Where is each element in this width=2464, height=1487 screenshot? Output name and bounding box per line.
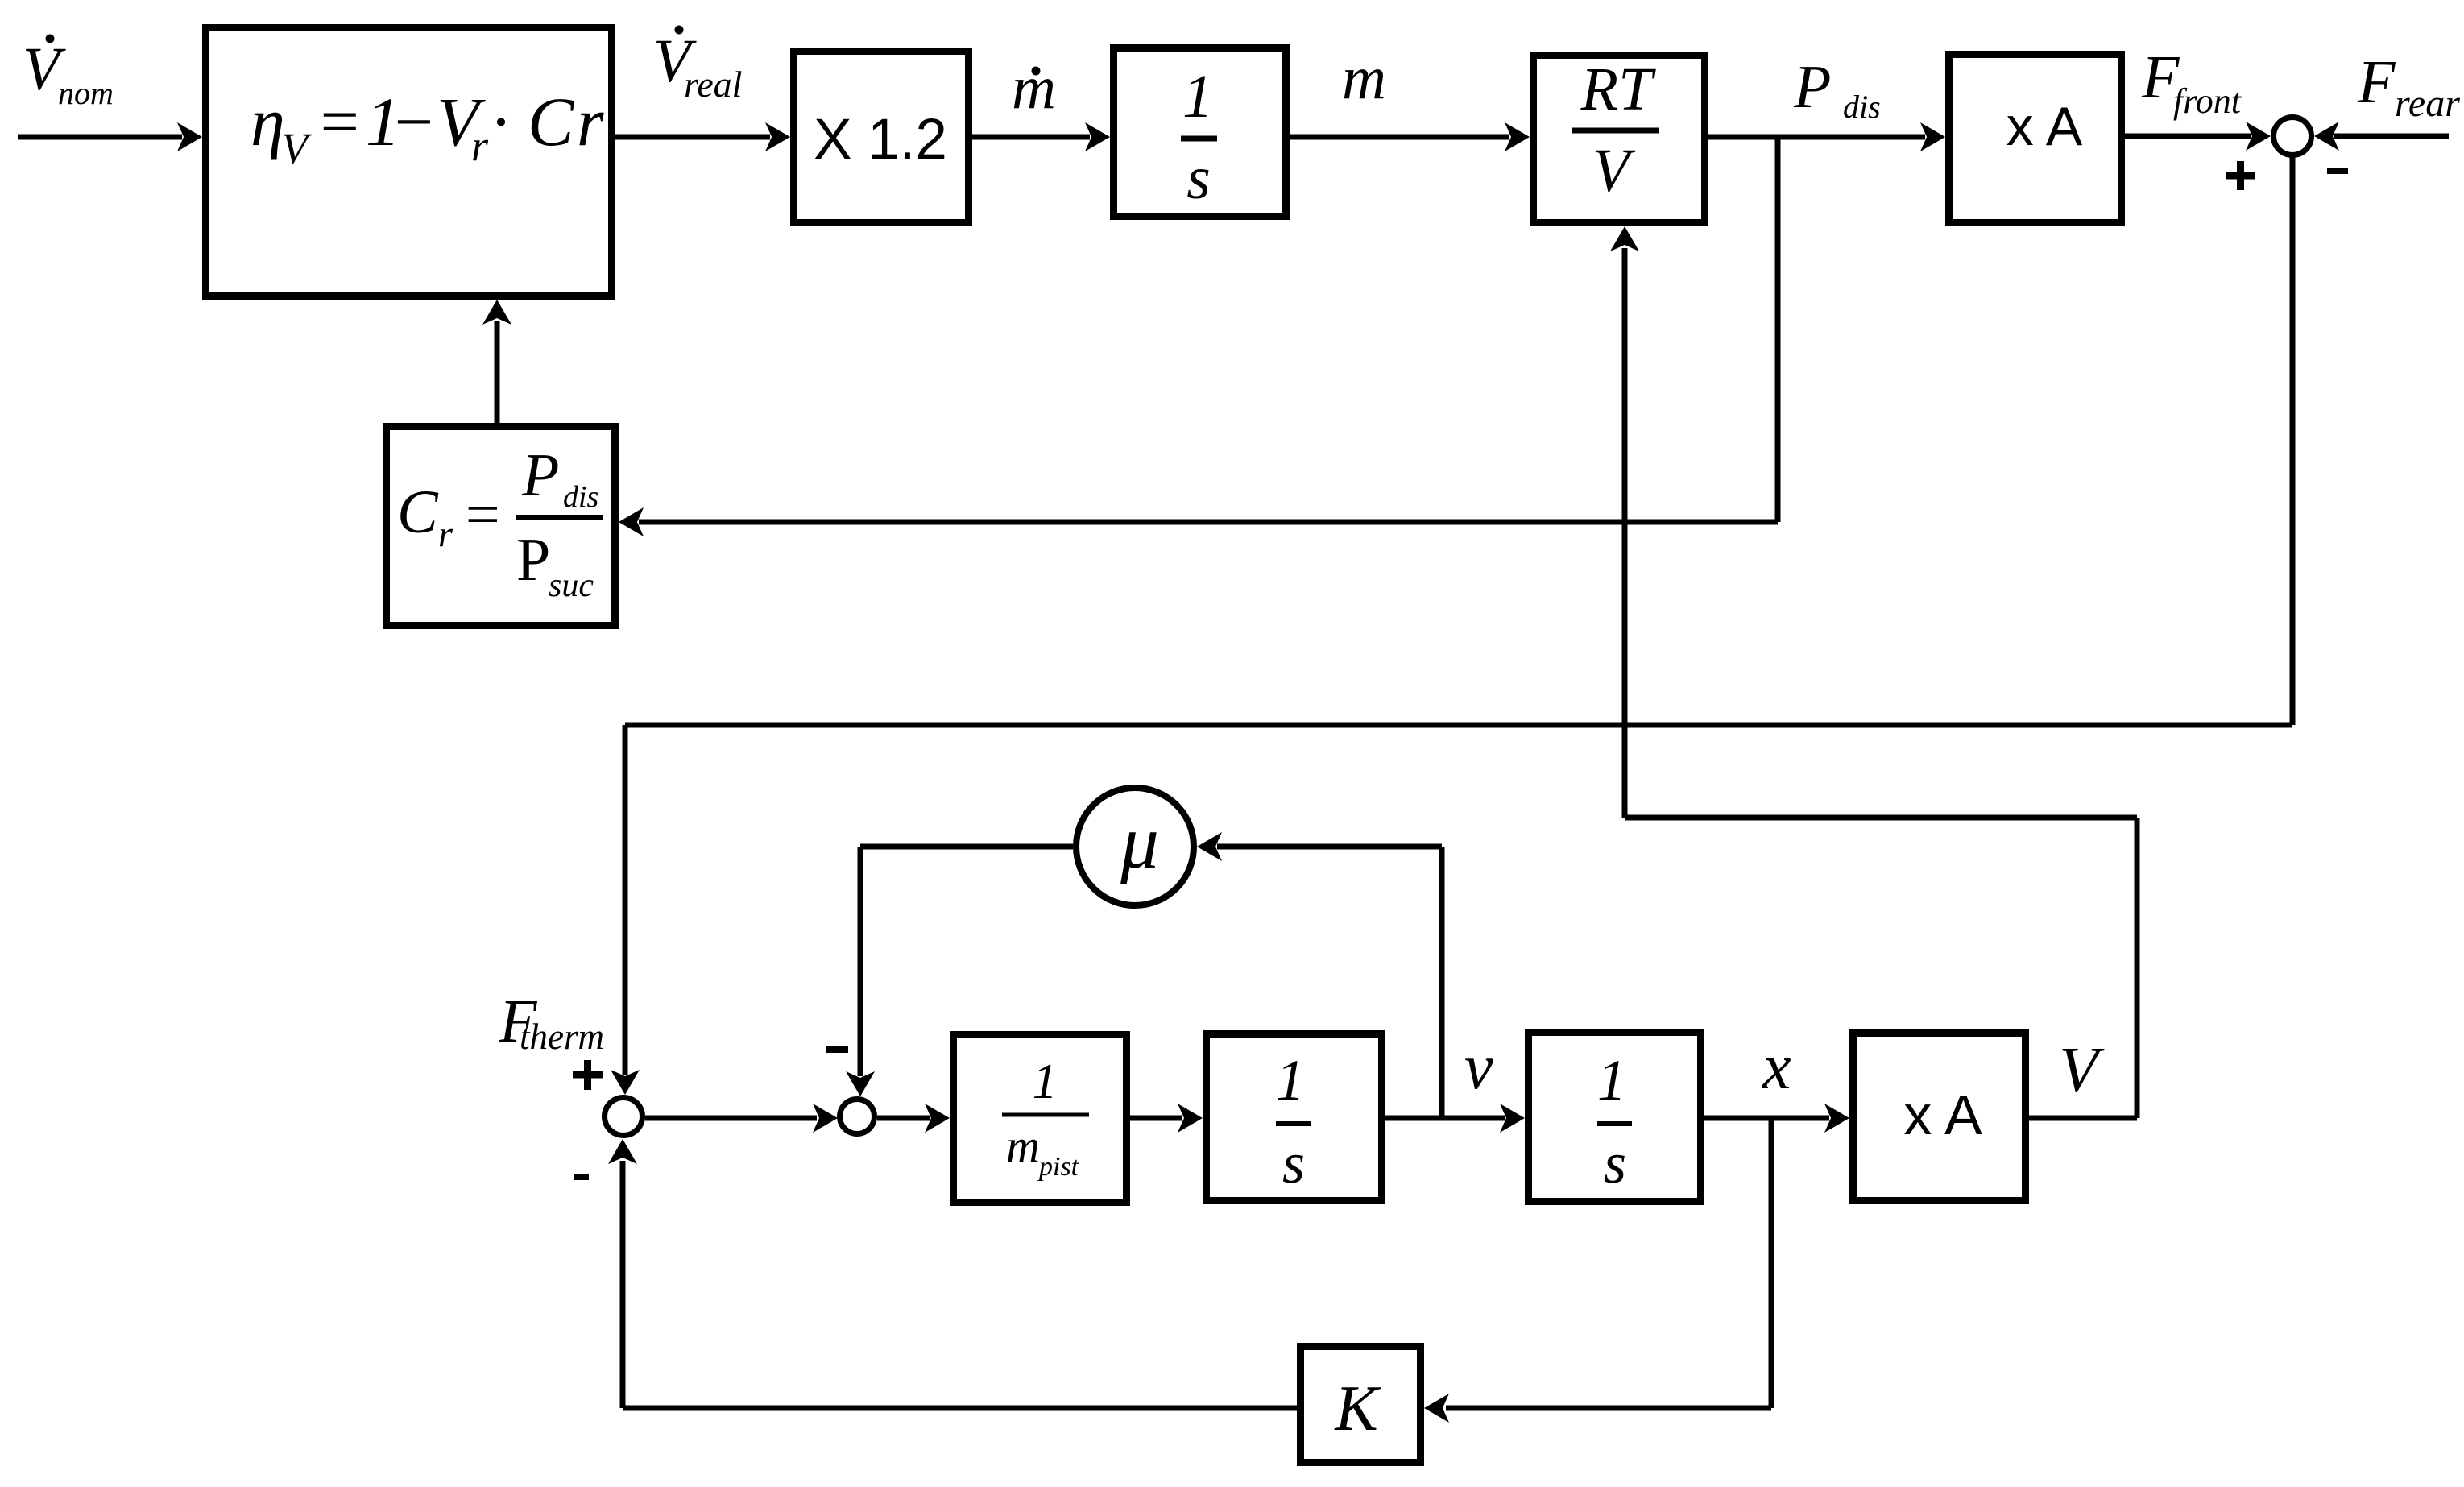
svg-text:η: η: [251, 83, 285, 160]
svg-text:F: F: [2357, 48, 2396, 116]
minus sign at summing junction: [2327, 168, 2348, 174]
svg-text:X 1.2: X 1.2: [814, 108, 947, 172]
svg-text:·: ·: [491, 83, 509, 160]
svg-text:x A: x A: [1903, 1083, 1982, 1146]
svg-text:V: V: [1592, 137, 1636, 205]
node F_therm label: [499, 988, 604, 1057]
svg-text:r: r: [577, 83, 604, 160]
block Cr = Pdis/Psuc: [387, 427, 615, 626]
wire mu output left: [860, 844, 1073, 850]
svg-text:1: 1: [1182, 63, 1213, 130]
block eta_V = 1 - Vr * Cr: [206, 28, 612, 296]
wire long feedback left at y=900: [625, 723, 2292, 728]
node Vdot_real label: [653, 26, 742, 106]
svg-text:1: 1: [1033, 1054, 1058, 1109]
plus sign at summing junction: [2226, 161, 2255, 190]
wire xA to summing junction: [2125, 122, 2271, 151]
node Vdot_nom input label: [23, 35, 114, 112]
svg-text:s: s: [1186, 144, 1211, 212]
block integrator 1/s (bottom second): [1529, 1033, 1701, 1202]
minus sign at friction summing junction: [826, 1046, 848, 1053]
wire V feedback up: [2135, 818, 2140, 1118]
summing junction friction: [840, 1100, 875, 1134]
svg-text:v: v: [1464, 1032, 1493, 1103]
svg-text:m: m: [1006, 1120, 1040, 1172]
block integrator 1/s (top): [1114, 48, 1286, 217]
svg-text:μ: μ: [1120, 799, 1159, 884]
wire v takeoff up: [1439, 847, 1445, 1118]
svg-text:x: x: [1762, 1032, 1791, 1103]
svg-text:s: s: [1604, 1131, 1626, 1195]
block 1/m_pist: [954, 1035, 1127, 1203]
svg-text:nom: nom: [58, 75, 114, 111]
node m label: [1342, 44, 1386, 112]
svg-text:1: 1: [1276, 1048, 1305, 1112]
svg-text:1: 1: [1597, 1048, 1626, 1112]
wire K output left: [623, 1406, 1297, 1411]
svg-text:C: C: [528, 83, 575, 160]
svg-text:s: s: [1282, 1131, 1305, 1195]
svg-text:=: =: [316, 83, 362, 160]
wire v line to second integrator: [1385, 1104, 1525, 1133]
wire V feedback left: [1625, 815, 2137, 821]
minus sign below F summing junction: [574, 1174, 589, 1180]
block gain X 1.2: [794, 52, 969, 223]
wire F sum to second sum: [645, 1104, 838, 1133]
svg-text:therm: therm: [520, 1017, 604, 1057]
svg-text:K: K: [1334, 1373, 1381, 1444]
node P_dis label: [1793, 53, 1881, 125]
svg-text:suc: suc: [549, 567, 594, 604]
wire x into K block: [1424, 1394, 1771, 1423]
svg-text:front: front: [2173, 81, 2242, 121]
wire v into mu: [1197, 832, 1442, 861]
svg-text:C: C: [397, 478, 439, 546]
node mdot label: [1012, 54, 1056, 122]
wire 1/m_pist to first integrator: [1130, 1104, 1203, 1133]
svg-text:V: V: [2059, 1035, 2105, 1106]
block integrator 1/s (bottom first): [1207, 1034, 1382, 1201]
svg-text:=: =: [462, 481, 503, 549]
node F_rear label: [2357, 48, 2460, 125]
wire P_dis feedback left into Cr block: [619, 507, 1778, 536]
block RT/V: [1534, 56, 1705, 223]
wire RT/V to xA with P_dis junction: [1708, 122, 1945, 151]
svg-text:r: r: [438, 513, 453, 554]
wire F_rear input from right: [2314, 122, 2449, 151]
node x label: [1762, 1032, 1791, 1103]
svg-text:m: m: [1342, 44, 1386, 112]
wire 1/s to RT/V: [1290, 122, 1530, 151]
summing junction (F_front + , F_rear -): [2274, 118, 2312, 155]
svg-text:m: m: [1012, 54, 1056, 122]
svg-text:dis: dis: [1843, 89, 1881, 125]
svg-text:r: r: [471, 122, 489, 170]
summing junction F_therm: [605, 1098, 643, 1136]
wire eta to X1.2: [615, 122, 790, 151]
svg-text:pist: pist: [1037, 1152, 1080, 1182]
wire down into F summing junction: [611, 725, 640, 1095]
node F_front label: [2141, 43, 2242, 121]
wire x line to xA bottom: [1704, 1104, 1849, 1133]
node v label: [1464, 1032, 1493, 1103]
block spring gain K: [1301, 1347, 1421, 1463]
svg-text:−: −: [390, 83, 437, 160]
gain circle mu: [1076, 788, 1194, 905]
wire X1.2 to integrator 1/s: [972, 122, 1110, 151]
block gain x A (top): [1949, 55, 2122, 223]
wire K feedback up into F sum: [608, 1139, 637, 1408]
svg-text:dis: dis: [563, 480, 598, 514]
svg-text:P: P: [521, 441, 559, 509]
svg-text:x A: x A: [2006, 96, 2083, 157]
wire Vnom input arrow into eta block: [18, 122, 202, 151]
svg-text:real: real: [684, 64, 742, 105]
wire mu output down into friction sum: [846, 847, 875, 1096]
node V label: [2059, 1035, 2105, 1106]
wire P_dis feedback down: [1775, 135, 1781, 522]
wire V feedback up into RT/V: [1610, 226, 1639, 818]
wire summing junction output down: [2290, 155, 2296, 725]
wire x takeoff down: [1769, 1118, 1774, 1408]
plus sign at F summing junction: [573, 1060, 603, 1090]
wire xA bottom output right: [2029, 1116, 2137, 1121]
svg-text:RT: RT: [1580, 56, 1656, 123]
svg-text:P: P: [1793, 53, 1831, 121]
wire Cr output up into eta block: [482, 300, 511, 423]
svg-text:rear: rear: [2395, 82, 2460, 125]
block gain x A (bottom): [1853, 1033, 2026, 1201]
svg-text:P: P: [516, 526, 550, 594]
wire friction sum to 1/m_pist: [877, 1104, 950, 1133]
